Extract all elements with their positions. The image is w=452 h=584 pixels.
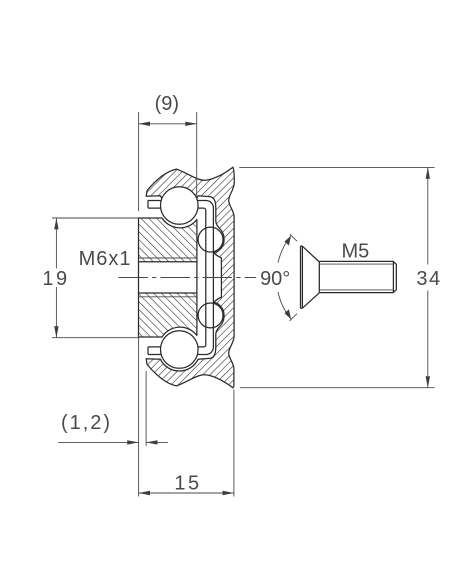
outer rail profile (hatched section) [146,167,234,388]
inner block lower section (hatched) [139,293,197,337]
svg-text:(1,2): (1,2) [61,412,112,434]
dimension (9) [139,112,197,211]
small ball lower [198,303,223,328]
dimension (1,2) [58,337,168,497]
inner block upper section (hatched) [139,218,197,262]
dimension 19 [52,218,139,338]
screw shank [319,261,396,292]
svg-text:M6x1: M6x1 [79,248,132,270]
block bore left edge [138,262,140,293]
svg-text:90°: 90° [260,268,290,290]
90 degree dimension arc [278,236,291,320]
thread major line upper (M6x1) [139,257,197,259]
svg-text:19: 19 [42,268,69,290]
svg-text:15: 15 [174,473,201,495]
screw thread minor lines [320,264,393,290]
small ball upper [198,227,223,252]
dimension 34 [239,167,434,387]
dimension 15 [139,390,234,497]
svg-text:(9): (9) [155,93,179,115]
svg-text:M5: M5 [342,241,370,263]
big ball lower [161,331,199,369]
90 degree cone extension ticks [290,234,297,321]
block bore right edge [196,262,198,293]
centerline (dash-dot) [118,277,256,279]
arc arrowheads [285,236,292,320]
thread major line lower (M6x1) [139,296,197,298]
intermediate rail (bent sheet C-channel) [148,201,213,355]
screw head (countersunk M5) [301,246,320,309]
big ball upper [161,187,199,225]
svg-text:34: 34 [416,268,441,290]
